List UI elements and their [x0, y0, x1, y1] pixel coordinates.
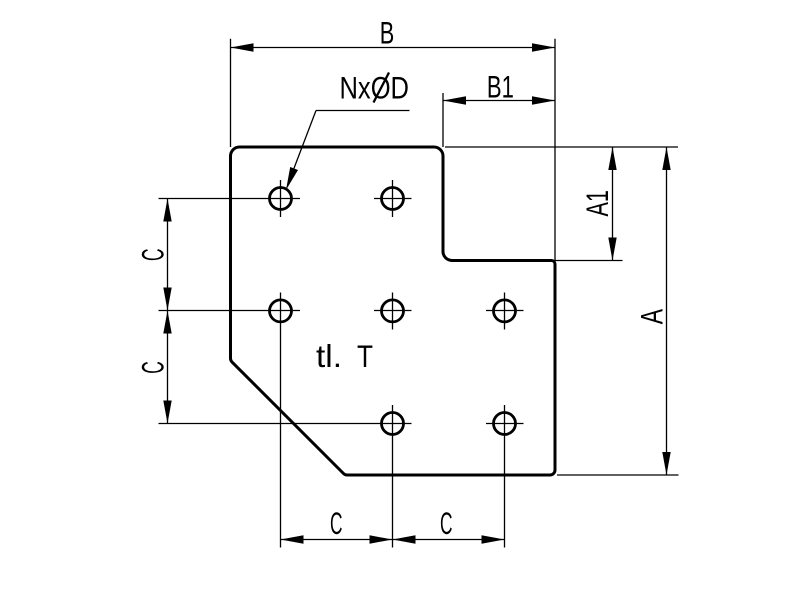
extension line A1 bottom	[555, 260, 623, 262]
dimension A	[633, 147, 670, 475]
svg-text:T: T	[357, 338, 373, 374]
extension line C row1	[159, 198, 301, 200]
svg-text:B1: B1	[487, 69, 514, 105]
extension line C col2	[392, 405, 394, 548]
centerline horizontal hole H2	[374, 198, 412, 200]
plate outline	[230, 147, 555, 475]
svg-text:A: A	[633, 309, 669, 324]
centerline horizontal hole H4	[374, 310, 412, 312]
extension line A top	[445, 146, 678, 148]
dimension B	[231, 15, 556, 52]
extension line C row2	[159, 310, 301, 312]
extension line B right	[554, 39, 556, 261]
svg-text:C: C	[135, 249, 171, 262]
extension line A bottom	[557, 474, 679, 476]
dimension C bottom right	[393, 505, 505, 544]
svg-text:tl.: tl.	[316, 338, 342, 374]
label tl. T	[316, 338, 373, 374]
hole H4 (row2 col2)	[382, 300, 404, 322]
extension line C row3	[159, 423, 412, 425]
svg-text:C: C	[330, 505, 343, 541]
hole H6 (row3 col2)	[382, 413, 404, 435]
dimension C left lower	[135, 311, 172, 424]
extension line C col1	[280, 293, 282, 548]
dimension B1	[443, 69, 555, 105]
dimension A1	[579, 147, 617, 261]
extension line B1 left	[442, 93, 444, 147]
extension line C col3	[504, 405, 506, 548]
hole H3 (row2 col1)	[270, 300, 292, 322]
extension line B left	[230, 39, 232, 147]
centerline horizontal hole H7	[486, 423, 524, 425]
centerline vertical hole H5	[504, 293, 506, 330]
hole H2 (row1 col2)	[382, 188, 404, 210]
hole H7 (row3 col3)	[494, 413, 516, 435]
centerline horizontal hole H5	[486, 310, 524, 312]
centerline vertical hole H4	[392, 293, 394, 330]
dimension C bottom left	[281, 505, 505, 544]
dimension C left upper	[135, 199, 172, 424]
svg-text:C: C	[440, 505, 453, 541]
svg-text:B: B	[380, 15, 395, 51]
leader NxOD	[286, 70, 410, 191]
hole H5 (row2 col3)	[494, 300, 516, 322]
svg-text:A1: A1	[579, 190, 615, 217]
hole H1 (row1 col1)	[270, 188, 292, 210]
centerline vertical hole H2	[392, 180, 394, 217]
centerline vertical hole H1	[280, 180, 282, 217]
svg-text:C: C	[135, 361, 171, 374]
